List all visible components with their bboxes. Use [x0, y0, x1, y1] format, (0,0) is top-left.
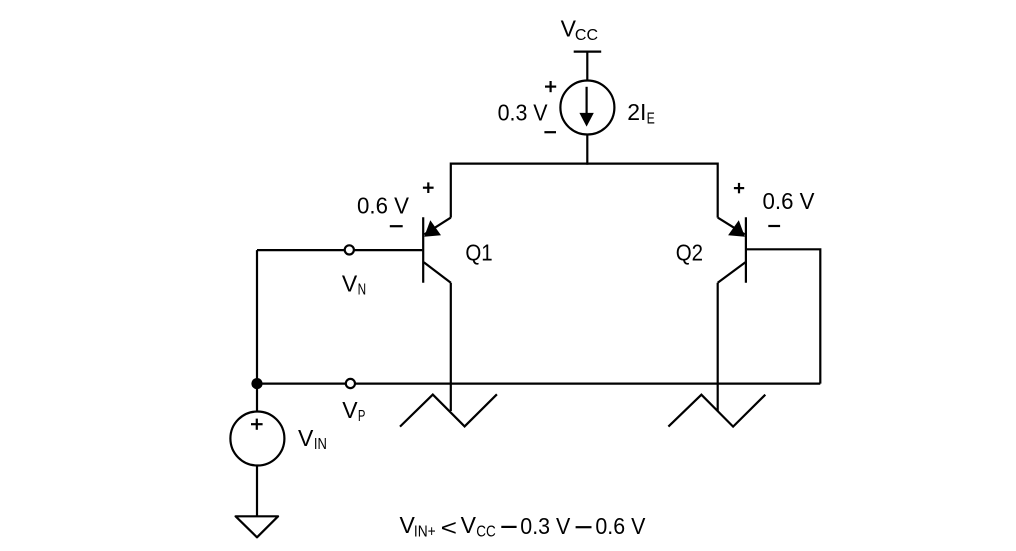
wire dot to VIN source	[256, 384, 258, 411]
svg-text:V: V	[342, 271, 358, 297]
plus sign of Q2 0.6 V	[734, 183, 744, 193]
current source I1 circle	[560, 81, 614, 135]
node VP label	[342, 397, 365, 425]
node VN label	[342, 271, 366, 299]
node VCC label	[561, 15, 598, 44]
zigzag break symbol right	[668, 395, 765, 427]
Q1 base bar	[422, 217, 424, 282]
svg-text:Q2: Q2	[676, 239, 703, 265]
svg-text:IN: IN	[314, 436, 327, 453]
svg-text:0.6 V: 0.6 V	[763, 188, 816, 214]
current source arrow	[579, 87, 593, 127]
svg-text:Q1: Q1	[465, 239, 492, 265]
source VIN circle	[230, 412, 284, 466]
node VP open circle	[346, 379, 355, 388]
VCC rail bar	[574, 50, 602, 52]
svg-text:E: E	[647, 111, 655, 128]
Q2 collector diagonal	[718, 262, 746, 283]
node VN open circle	[345, 245, 354, 254]
Q1 collector wire down	[450, 283, 452, 411]
plus sign of 0.3 V	[545, 81, 556, 92]
wire VP line	[257, 383, 820, 385]
svg-text:0.3 V: 0.3 V	[520, 513, 571, 539]
svg-text:0.6 V: 0.6 V	[595, 513, 646, 539]
formula minus 2	[576, 526, 592, 528]
svg-text:V: V	[298, 425, 314, 451]
Q1 emitter arrowhead	[424, 220, 441, 236]
svg-text:V: V	[461, 512, 477, 538]
svg-text:CC: CC	[476, 523, 496, 540]
svg-text:N: N	[358, 282, 367, 299]
Q1 emitter diagonal	[424, 218, 451, 235]
wire current source to emitter rail	[586, 135, 588, 165]
wire emitter rail	[451, 164, 718, 218]
svg-text:IN+: IN+	[414, 523, 436, 540]
junction dot at VIN node	[251, 378, 262, 389]
svg-text:<: <	[441, 514, 457, 540]
Q2 emitter arrowhead	[728, 220, 745, 236]
minus sign of Q2 0.6 V	[768, 225, 780, 227]
Q1 collector diagonal	[424, 262, 451, 283]
formula V_IN+ < V_CC - 0.3 V - 0.6 V	[400, 512, 496, 540]
source VIN label	[298, 425, 327, 453]
svg-text:V: V	[342, 397, 358, 423]
wire VN line	[257, 249, 422, 251]
minus sign of 0.3 V	[544, 131, 556, 133]
svg-text:P: P	[358, 408, 366, 425]
formula minus 1	[501, 526, 516, 528]
wire VIN to ground	[256, 466, 258, 517]
plus sign of Q1 0.6 V	[423, 182, 434, 193]
plus sign inside VIN	[251, 419, 263, 430]
svg-text:0.6 V: 0.6 V	[357, 192, 410, 218]
svg-text:CC: CC	[575, 27, 598, 44]
Q2 base wire right and down	[747, 249, 821, 383]
Q2 base bar	[745, 217, 747, 282]
current label 2IE	[627, 99, 655, 127]
transistor Q2	[718, 217, 746, 282]
transistor Q1	[423, 217, 451, 282]
Q2 collector wire down	[717, 283, 719, 411]
Q2 emitter diagonal	[718, 218, 745, 235]
minus sign of Q1 0.6 V	[390, 225, 403, 227]
zigzag break symbol left	[400, 394, 497, 426]
wire left vertical	[256, 250, 258, 384]
svg-text:0.3 V: 0.3 V	[498, 100, 549, 126]
svg-text:2I: 2I	[627, 99, 646, 125]
wire VCC bar to current source	[586, 52, 588, 81]
ground	[236, 516, 279, 537]
